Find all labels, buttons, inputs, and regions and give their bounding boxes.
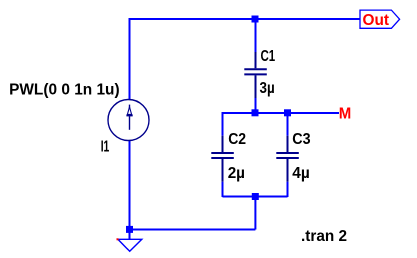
svg-text:PWL(0 0 1n 1u): PWL(0 0 1n 1u)	[9, 82, 120, 99]
svg-text:2µ: 2µ	[228, 165, 245, 182]
svg-text:3µ: 3µ	[260, 80, 275, 97]
svg-text:C1: C1	[261, 48, 276, 65]
svg-text:C3: C3	[292, 131, 310, 148]
svg-text:4µ: 4µ	[292, 165, 310, 182]
svg-text:C2: C2	[228, 131, 246, 148]
svg-text:.tran 2: .tran 2	[301, 228, 347, 245]
svg-text:I1: I1	[101, 139, 110, 156]
svg-text:Out: Out	[363, 12, 390, 29]
svg-text:M: M	[339, 105, 352, 122]
